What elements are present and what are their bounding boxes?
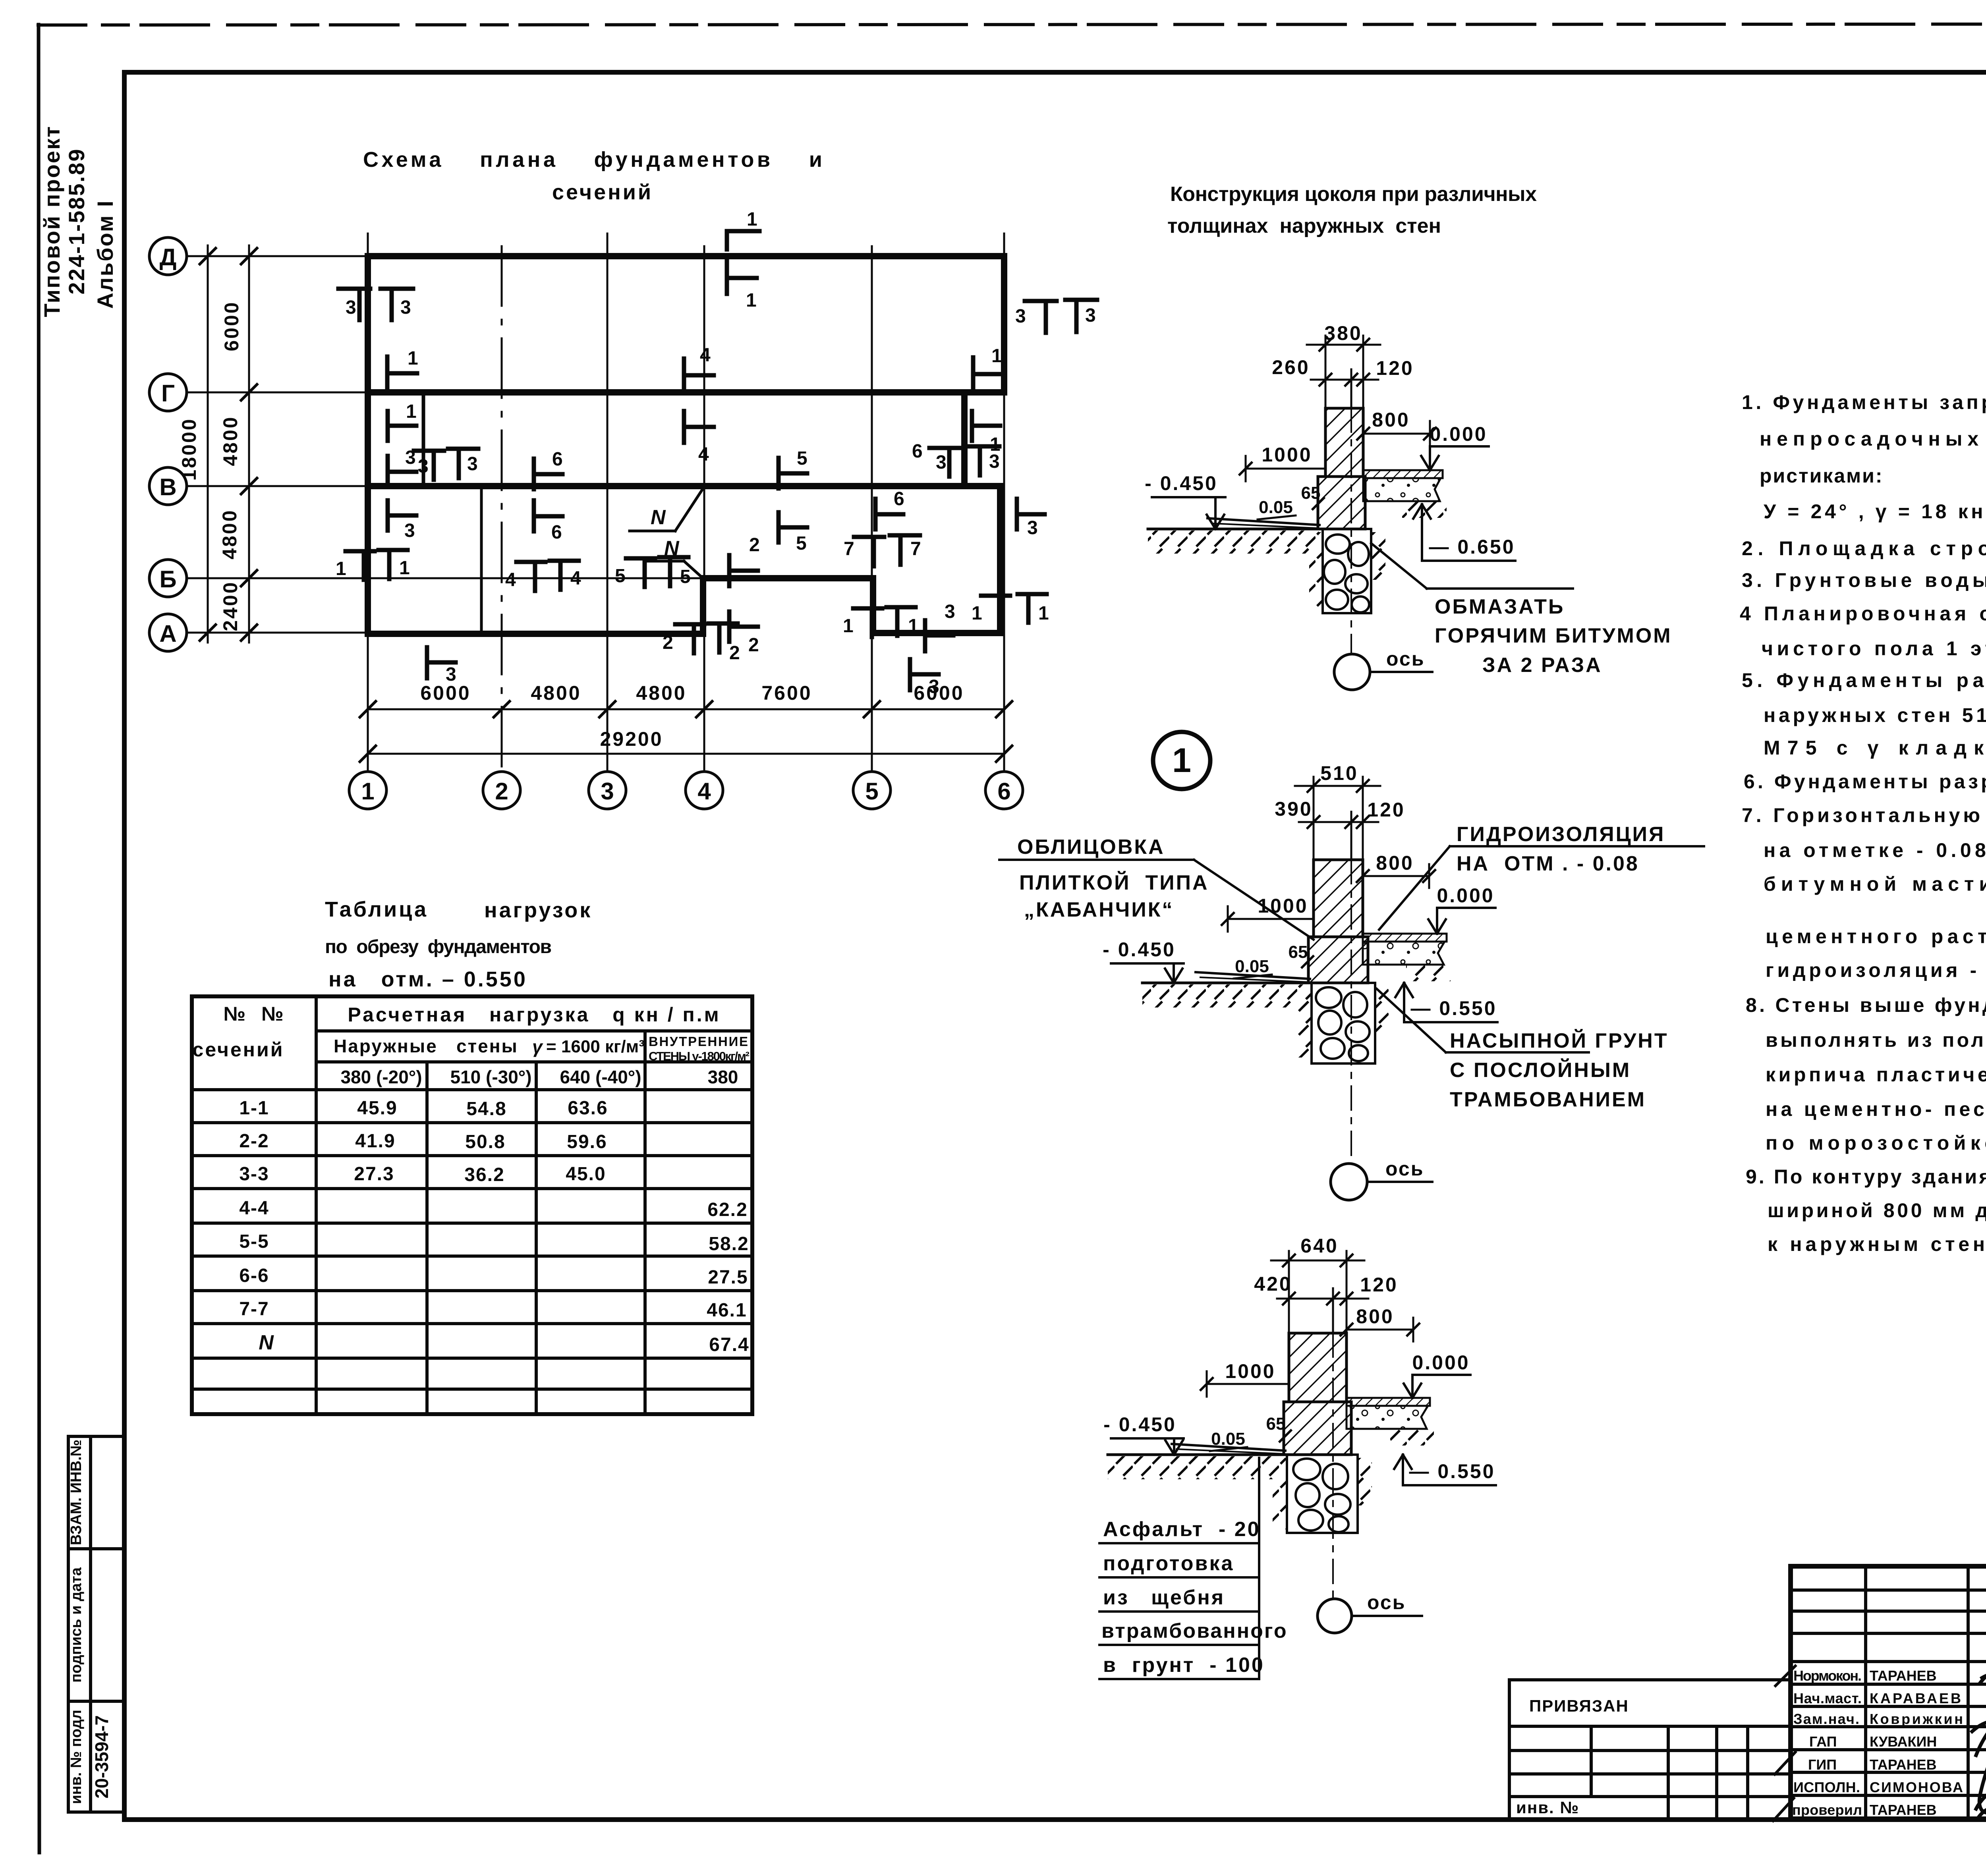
svg-text:3: 3 [601, 778, 614, 805]
foundation side hatch [1309, 532, 1323, 608]
svg-text:Б: Б [159, 566, 176, 593]
axis line G [187, 392, 369, 394]
svg-text:1: 1 [408, 348, 418, 369]
svg-text:65: 65 [1301, 483, 1321, 503]
svg-text:6. Фундаменты разработаны из б: 6. Фундаменты разработаны из бутобетона … [1744, 770, 1986, 793]
svg-text:№ №: № № [223, 1003, 285, 1025]
svg-text:НАСЫПНОЙ ГРУНТ: НАСЫПНОЙ ГРУНТ [1450, 1029, 1669, 1052]
svg-text:ристиками:: ристиками: [1760, 465, 1884, 487]
ground hatch band [1108, 1456, 1285, 1479]
svg-text:45.0: 45.0 [566, 1164, 606, 1185]
svg-text:3: 3 [446, 664, 456, 685]
column circle 1 [349, 772, 386, 809]
svg-text:ТАРАНЕВ: ТАРАНЕВ [1870, 1756, 1937, 1773]
ground line left [1142, 982, 1310, 984]
svg-text:27.3: 27.3 [354, 1164, 394, 1185]
bottom dimension line row 1 [368, 708, 1004, 710]
svg-text:ИСПОЛН.: ИСПОЛН. [1793, 1779, 1860, 1795]
svg-text:7: 7 [910, 538, 921, 560]
svg-text:36.2: 36.2 [464, 1164, 504, 1185]
svg-text:390: 390 [1275, 798, 1312, 820]
svg-text:к наружным стенам.: к наружным стенам. [1768, 1233, 1986, 1255]
svg-text:ГОРЯЧИМ БИТУМОМ: ГОРЯЧИМ БИТУМОМ [1435, 624, 1672, 647]
svg-text:N: N [651, 506, 666, 529]
floor concrete band [1363, 478, 1441, 501]
rubble foundation [1323, 529, 1371, 613]
table header line 2 [316, 1060, 752, 1063]
section mark 3 below V left [386, 500, 390, 531]
axis circle G [149, 374, 187, 411]
section mark 4T T4 [516, 560, 545, 564]
svg-text:ОБМАЗАТЬ: ОБМАЗАТЬ [1435, 595, 1565, 618]
svg-text:1: 1 [747, 209, 757, 230]
svg-text:1: 1 [1172, 741, 1191, 780]
floor finish band [1363, 934, 1447, 942]
svg-text:ось: ось [1386, 648, 1425, 670]
svg-text:подпись и дата: подпись и дата [68, 1567, 85, 1683]
rubble foundation [1287, 1455, 1358, 1533]
svg-text:0.05: 0.05 [1235, 957, 1269, 976]
svg-text:2: 2 [729, 643, 740, 664]
detail circle 1 [1153, 732, 1210, 789]
svg-text:на отметке - 0.08 выполнять из: на отметке - 0.08 выполнять из 2х слоев … [1764, 839, 1986, 861]
svg-text:2: 2 [495, 778, 508, 805]
svg-text:1: 1 [972, 603, 982, 624]
svg-text:ГАП: ГАП [1809, 1733, 1837, 1750]
section mark 3 left cluster G-V [386, 456, 390, 487]
svg-text:- 0.450: - 0.450 [1103, 1413, 1177, 1436]
section mark 1T T1 on left wall [346, 549, 375, 554]
svg-text:3: 3 [1085, 305, 1096, 326]
wall connector V right [964, 483, 1000, 489]
svg-text:из щебня: из щебня [1103, 1586, 1225, 1609]
ground hatch under floor [1406, 965, 1451, 981]
svg-text:Типовой проект: Типовой проект [39, 125, 64, 317]
svg-text:0.000: 0.000 [1430, 423, 1487, 445]
svg-text:800: 800 [1356, 1305, 1394, 1328]
svg-text:510: 510 [1320, 762, 1358, 784]
section mark 1 above G right [971, 357, 976, 389]
wall bottom left block along A [368, 631, 703, 637]
section mark 3 right block above A [923, 620, 927, 651]
annotation vertical line [1258, 1458, 1260, 1679]
svg-text:3: 3 [929, 676, 939, 697]
section mark 5 above V [777, 458, 781, 488]
section mark 6 above V [532, 459, 536, 489]
svg-text:С ПОСЛОЙНЫМ: С ПОСЛОЙНЫМ [1450, 1058, 1631, 1082]
section mark 2 above B notch [727, 555, 732, 586]
svg-text:НА ОТМ . - 0.08: НА ОТМ . - 0.08 [1457, 852, 1639, 875]
wall hatched [1289, 1333, 1347, 1402]
svg-text:3. Грунтовые воды отсутствуют.: 3. Грунтовые воды отсутствуют. [1742, 569, 1986, 591]
section mark 1 left cluster G-V [386, 411, 390, 441]
section mark 5 below V mid [777, 512, 781, 542]
table column line 1 [315, 996, 318, 1414]
svg-text:чистого пола 1 этажа , принято: чистого пола 1 этажа , принятого за 0.00… [1762, 637, 1986, 660]
section mark 3 right of col6 at V [1015, 499, 1019, 529]
section mark 6 below V mid [532, 500, 536, 531]
floor concrete band [1363, 942, 1445, 965]
svg-text:Асфальт - 20: Асфальт - 20 [1103, 1518, 1261, 1541]
svg-text:1: 1 [1038, 603, 1049, 624]
wall right lower [997, 486, 1003, 633]
svg-text:ГИП: ГИП [1808, 1756, 1837, 1773]
staff row slashes [1775, 1666, 1795, 1686]
inner wall G-V [422, 392, 425, 486]
wall step right G-V [961, 392, 968, 486]
leader nasypnoy grunt [1377, 989, 1446, 1052]
column circle 4 [686, 772, 723, 809]
svg-text:800: 800 [1372, 409, 1410, 431]
foundation side hatch [1297, 986, 1312, 1058]
svg-text:4800: 4800 [219, 415, 241, 466]
svg-text:ГИДРОИЗОЛЯЦИЯ: ГИДРОИЗОЛЯЦИЯ [1457, 823, 1665, 846]
axis line A [187, 632, 369, 634]
svg-text:подготовка: подготовка [1103, 1552, 1234, 1575]
svg-text:ПРИВЯЗАН: ПРИВЯЗАН [1529, 1697, 1629, 1715]
svg-text:20-3594-7: 20-3594-7 [91, 1715, 112, 1799]
detail 2: wall 510 [999, 762, 1704, 1200]
svg-text:800: 800 [1376, 852, 1414, 874]
table column line 4 [643, 1031, 647, 1414]
svg-text:9. По контуру здания сделать о: 9. По контуру здания сделать отсыпку из … [1746, 1166, 1986, 1188]
wall top along D [368, 253, 1004, 259]
svg-text:1000: 1000 [1262, 444, 1312, 466]
wall hatched [1314, 860, 1363, 937]
svg-text:нагрузок: нагрузок [484, 898, 592, 922]
svg-text:2. Площадка строительства со с: 2. Площадка строительства со спокойным р… [1742, 537, 1986, 560]
ground hatch band [1148, 531, 1319, 554]
svg-text:1: 1 [336, 558, 346, 579]
svg-text:0.000: 0.000 [1412, 1351, 1470, 1374]
plinth block [1308, 937, 1368, 983]
svg-text:Нач.маст.: Нач.маст. [1793, 1690, 1862, 1706]
axis circle B [149, 560, 187, 597]
ground line left [1108, 1453, 1285, 1456]
section mark 3T cluster [414, 449, 444, 453]
svg-text:М75 с γ кладки 1600 кг/м³: М75 с γ кладки 1600 кг/м³. [1764, 737, 1986, 759]
svg-text:ВЗАМ. ИНВ.№: ВЗАМ. ИНВ.№ [68, 1440, 85, 1545]
svg-text:А: А [159, 620, 176, 647]
svg-text:1: 1 [990, 434, 1001, 455]
svg-text:битумной мастике , стен в уров: битумной мастике , стен в уровне отм - 0… [1764, 873, 1986, 895]
section mark 1T T1 right of col6 [981, 594, 1010, 598]
general notes [1740, 391, 1986, 1255]
svg-text:58.2: 58.2 [709, 1233, 749, 1255]
svg-text:120: 120 [1360, 1274, 1398, 1296]
ground hatch under floor [1402, 501, 1447, 518]
section mark 1 above D at col4 lower [725, 261, 729, 294]
wall axis dash line [1350, 408, 1352, 654]
column grid line 3 [607, 234, 609, 770]
svg-text:3: 3 [418, 456, 429, 477]
svg-text:Наружные стены: Наружные стены [334, 1036, 518, 1056]
svg-text:1: 1 [361, 778, 374, 805]
svg-text:1: 1 [908, 616, 919, 637]
svg-text:3: 3 [1015, 306, 1026, 327]
rubble foundation [1312, 983, 1375, 1063]
section mark 5T T5 [626, 556, 655, 561]
svg-text:7: 7 [844, 538, 854, 560]
column grid line 6 [1003, 234, 1005, 770]
svg-text:Коврижкин: Коврижкин [1870, 1711, 1963, 1727]
svg-text:1-1: 1-1 [239, 1098, 269, 1119]
svg-text:59.6: 59.6 [567, 1131, 607, 1152]
svg-text:45.9: 45.9 [357, 1098, 397, 1119]
svg-text:27.5: 27.5 [708, 1267, 748, 1288]
svg-text:толщинах наружных стен: толщинах наружных стен [1167, 214, 1443, 237]
svg-text:260: 260 [1272, 356, 1310, 378]
svg-text:6: 6 [912, 441, 923, 462]
svg-text:46.1: 46.1 [707, 1300, 747, 1321]
svg-text:6000: 6000 [420, 682, 471, 704]
svg-text:4800: 4800 [636, 682, 686, 704]
axis line B [187, 577, 704, 579]
axis circle A [149, 614, 187, 651]
section mark 2 below B notch [727, 612, 732, 642]
column grid line 4 [703, 246, 705, 770]
svg-text:ПЛИТКОЙ ТИПА: ПЛИТКОЙ ТИПА [1019, 871, 1209, 894]
svg-text:1. Фундаменты запроектированы: 1. Фундаменты запроектированы для сухих … [1742, 391, 1986, 413]
left stamp cells [68, 1436, 124, 1812]
svg-text:2: 2 [663, 632, 673, 653]
svg-text:кирпича пластического прессова: кирпича пластического прессования (ГОСТ … [1766, 1063, 1986, 1086]
svg-text:3: 3 [346, 297, 356, 318]
svg-text:3: 3 [467, 454, 478, 475]
svg-text:5: 5 [615, 566, 626, 587]
section mark T3 right cluster [969, 444, 999, 449]
svg-text:2: 2 [749, 535, 760, 556]
section mark T3 cluster [448, 447, 478, 451]
loads table frame [192, 996, 752, 1414]
svg-text:ось: ось [1367, 1591, 1406, 1614]
table header line 1 [316, 1029, 752, 1033]
svg-text:3: 3 [400, 297, 411, 318]
svg-text:224-1-585.89: 224-1-585.89 [64, 148, 89, 294]
svg-text:на отм. – 0.550: на отм. – 0.550 [328, 967, 527, 991]
svg-text:сечений: сечений [552, 180, 653, 204]
svg-text:4: 4 [698, 444, 709, 465]
column circle 6 [985, 772, 1023, 809]
svg-text:2: 2 [748, 635, 759, 656]
svg-text:7. Горизонтальную гидроизоляци: 7. Горизонтальную гидроизоляцию стен в у… [1742, 804, 1986, 826]
svg-text:Д: Д [160, 244, 177, 270]
table row lines [192, 1121, 752, 1124]
section mark 3 below A right [908, 659, 912, 690]
svg-text:62.2: 62.2 [707, 1199, 748, 1220]
section mark 3T left of col1 top band [338, 287, 370, 291]
wall axis dash line [1350, 860, 1352, 1164]
table column line 3 [535, 1062, 538, 1414]
axis circle V [149, 467, 187, 505]
svg-text:Нормокон.: Нормокон. [1793, 1668, 1862, 1684]
svg-text:54.8: 54.8 [466, 1098, 506, 1119]
wall right upper along column 6 [1001, 256, 1007, 392]
svg-text:— 0.550: — 0.550 [1410, 997, 1497, 1019]
svg-text:510 (-30°): 510 (-30°) [450, 1067, 531, 1087]
svg-text:63.6: 63.6 [568, 1098, 608, 1119]
section mark 7T pair [854, 535, 884, 539]
svg-text:Альбом I: Альбом I [93, 199, 118, 309]
table header line 3 [192, 1088, 752, 1091]
asphalt apron slope [1207, 518, 1319, 525]
title block staff rows [1791, 1683, 1986, 1686]
svg-text:ТАРАНЕВ: ТАРАНЕВ [1870, 1802, 1937, 1818]
svg-text:1: 1 [406, 401, 417, 422]
column circle 5 [853, 772, 891, 809]
svg-text:по обрезу фундаментов: по обрезу фундаментов [325, 936, 553, 957]
svg-text:ЗА 2 РАЗА: ЗА 2 РАЗА [1482, 654, 1602, 677]
svg-text:СИМОНОВА: СИМОНОВА [1870, 1779, 1963, 1795]
foundation side hatch [1273, 1458, 1287, 1529]
privyazan table [1509, 1680, 1791, 1819]
floor concrete band [1347, 1406, 1428, 1429]
svg-text:шириной 800 мм для утепления п: шириной 800 мм для утепления полов в зон… [1768, 1199, 1986, 1222]
svg-text:СТЕНЫ γ-1800кг/м²: СТЕНЫ γ-1800кг/м² [649, 1049, 750, 1063]
axis circle os [1318, 1599, 1352, 1633]
svg-text:0.05: 0.05 [1211, 1429, 1245, 1449]
svg-text:4-4: 4-4 [239, 1198, 269, 1219]
svg-text:120: 120 [1376, 357, 1414, 379]
svg-text:„КАБАНЧИК“: „КАБАНЧИК“ [1024, 898, 1174, 921]
section mark 1 below D at col1 [385, 357, 390, 388]
title block frame [1791, 1566, 1986, 1819]
asphalt apron slope [1172, 1444, 1285, 1451]
svg-text:непросадочных грунтов со следу: непросадочных грунтов со следующими хара… [1760, 428, 1986, 450]
svg-text:= 1600 кг/м³: = 1600 кг/м³ [546, 1037, 645, 1056]
svg-text:1: 1 [991, 345, 1002, 367]
title block top rows [1791, 1588, 1986, 1592]
svg-text:120: 120 [1367, 799, 1405, 821]
wall hatched [1325, 408, 1363, 477]
svg-text:4800: 4800 [531, 682, 581, 704]
svg-text:ось: ось [1385, 1158, 1424, 1180]
axis circle os [1334, 654, 1370, 690]
svg-text:0.000: 0.000 [1437, 884, 1494, 907]
left overall dimension line 18000 [207, 245, 209, 643]
section mark 1T T1 mid right [853, 606, 882, 611]
svg-text:Таблица: Таблица [325, 897, 428, 921]
svg-text:65: 65 [1266, 1414, 1286, 1434]
svg-text:цементного раствора состава 1:: цементного раствора состава 1: 2 . Верти… [1766, 925, 1986, 948]
wall along V [368, 483, 964, 489]
svg-text:3: 3 [1027, 517, 1038, 538]
svg-text:67.4: 67.4 [709, 1334, 749, 1355]
wall along G [368, 389, 1004, 396]
svg-text:в грунт - 100: в грунт - 100 [1103, 1654, 1265, 1677]
svg-text:2400: 2400 [219, 581, 241, 631]
svg-text:380: 380 [708, 1067, 738, 1087]
svg-text:6: 6 [894, 488, 904, 510]
svg-text:N: N [259, 1331, 274, 1354]
svg-text:Зам.нач.: Зам.нач. [1793, 1711, 1859, 1727]
svg-text:— 0.550: — 0.550 [1409, 1460, 1495, 1482]
axis circle D [149, 237, 187, 275]
ground hatch under floor [1390, 1429, 1434, 1446]
svg-text:Расчетная нагрузка q кн /: Расчетная нагрузка q кн / п.м [348, 1004, 721, 1026]
section mark T3 right of col1 top band [381, 287, 413, 291]
svg-text:гидроизоляция - обмазка горячи: гидроизоляция - обмазка горячим битумом … [1766, 959, 1986, 981]
wall left of right block B-A [870, 578, 876, 633]
axis line D [187, 255, 369, 257]
svg-text:сечений: сечений [193, 1038, 284, 1061]
svg-text:6: 6 [551, 522, 562, 543]
signatures scribbles [1972, 1667, 1986, 1817]
section mark 3T right cluster above V [929, 446, 960, 450]
column grid line 2 [501, 246, 503, 770]
asphalt apron slope [1196, 972, 1310, 979]
svg-text:1: 1 [843, 616, 854, 637]
svg-text:1: 1 [399, 558, 410, 579]
svg-text:- 0.450: - 0.450 [1103, 938, 1176, 961]
detail 1: wall 380 [1145, 322, 1672, 690]
table row labels [239, 1098, 269, 1320]
svg-text:КАРАВАЕВ: КАРАВАЕВ [1870, 1690, 1961, 1706]
svg-text:3: 3 [945, 601, 955, 622]
title block verticals [1864, 1566, 1867, 1819]
svg-text:1000: 1000 [1225, 1360, 1275, 1382]
svg-text:4: 4 [570, 568, 581, 589]
svg-text:420: 420 [1254, 1273, 1292, 1295]
svg-text:выполнять из полнотелого красн: выполнять из полнотелого красного хорошо… [1766, 1029, 1986, 1051]
svg-text:наружных стен 510 мм. из пусто: наружных стен 510 мм. из пустотелого кир… [1764, 704, 1986, 726]
svg-text:Г: Г [161, 380, 175, 407]
svg-text:γ: γ [532, 1036, 543, 1057]
wall axis dash line [1332, 1333, 1334, 1598]
table column line 2 [425, 1062, 429, 1414]
break mark N lower [647, 537, 704, 579]
plinth block [1284, 1402, 1351, 1455]
inner wall V-A [480, 486, 483, 634]
column circle 2 [483, 772, 520, 809]
svg-text:5-5: 5-5 [239, 1231, 269, 1252]
svg-text:- 0.450: - 0.450 [1145, 472, 1218, 494]
svg-text:6-6: 6-6 [239, 1265, 269, 1286]
svg-text:7-7: 7-7 [239, 1299, 269, 1320]
floor finish band [1347, 1398, 1430, 1406]
svg-text:640: 640 [1300, 1235, 1338, 1257]
svg-text:29200: 29200 [600, 728, 663, 750]
svg-text:3: 3 [936, 452, 947, 473]
svg-text:КУВАКИН: КУВАКИН [1870, 1733, 1937, 1750]
section mark 6 right block [873, 499, 878, 529]
section mark 3T right of col6 top band [1025, 299, 1057, 303]
staff labels [1792, 1668, 1963, 1818]
floor finish band [1363, 470, 1443, 478]
svg-text:3-3: 3-3 [239, 1164, 269, 1185]
svg-text:В: В [159, 474, 176, 500]
section mark 1 below G right [970, 411, 974, 441]
svg-text:7600: 7600 [761, 682, 812, 704]
svg-text:4: 4 [700, 345, 711, 366]
plinth block [1318, 477, 1365, 529]
outer page border left [39, 25, 39, 1853]
svg-text:2-2: 2-2 [239, 1131, 269, 1152]
svg-text:4800: 4800 [218, 509, 241, 559]
svg-text:1000: 1000 [1258, 895, 1308, 917]
svg-text:У = 24° , γ = 18 кн/м³ ,: У = 24° , γ = 18 кн/м³ , с = 13 кПа [1764, 500, 1986, 523]
column grid line 5 [871, 246, 873, 770]
bottom overall dimension line 29200 [368, 753, 1004, 755]
svg-text:18000: 18000 [178, 417, 200, 481]
svg-text:8. Стены выше фундаментов (цок: 8. Стены выше фундаментов (цоколь) до от… [1746, 994, 1986, 1016]
svg-text:6: 6 [997, 778, 1010, 805]
section mark 4 above G mid [682, 359, 686, 390]
section mark 2T T2 at A [675, 622, 704, 627]
svg-text:380 (-20°): 380 (-20°) [340, 1067, 422, 1087]
column grid line 1 [367, 234, 369, 770]
svg-text:1: 1 [746, 290, 757, 311]
